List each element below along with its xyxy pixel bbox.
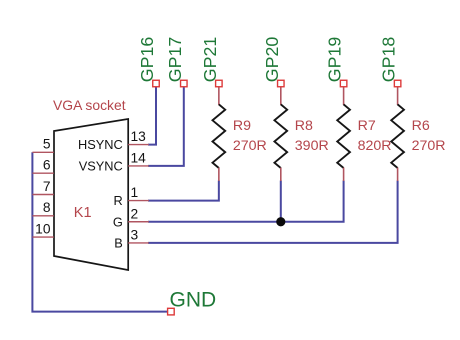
svg-text:270R: 270R (412, 138, 446, 154)
svg-text:7: 7 (43, 179, 51, 194)
wire B net (pin 3 across to R6 bottom) (148, 181, 398, 243)
svg-text:VGA socket: VGA socket (53, 97, 126, 113)
resistor R6 (391, 87, 445, 181)
svg-text:VSYNC: VSYNC (79, 159, 123, 174)
svg-text:GP17: GP17 (165, 37, 185, 82)
svg-text:390R: 390R (295, 138, 329, 154)
terminal square GP19 (340, 80, 347, 87)
svg-text:GP21: GP21 (200, 37, 220, 83)
terminal square GP18 (394, 80, 401, 87)
pin 13 stub (128, 144, 149, 146)
svg-text:GND: GND (170, 289, 217, 312)
VGA socket K1 body (54, 119, 128, 270)
wire HSYNC net (pin 13 to GP16) (148, 87, 156, 145)
pin 5 stub (32, 151, 53, 153)
svg-text:GP20: GP20 (262, 37, 282, 83)
resistor R7 (337, 87, 391, 181)
svg-text:8: 8 (43, 200, 51, 215)
pin 14 stub (128, 165, 149, 167)
terminal square GP20 (278, 80, 285, 87)
wire VSYNC net (pin 14 to GP17) (148, 87, 184, 166)
terminal square GP21 (216, 80, 223, 87)
svg-text:270R: 270R (233, 138, 267, 154)
pin 10 stub (32, 236, 53, 238)
svg-text:GP16: GP16 (137, 37, 157, 83)
svg-text:K1: K1 (74, 205, 92, 221)
pin 1 stub (128, 200, 149, 202)
wire GND net (left vertical bus + bottom run to GND terminal) (32, 152, 167, 311)
svg-text:R: R (114, 193, 123, 208)
svg-text:2: 2 (131, 206, 139, 221)
svg-text:B: B (114, 236, 123, 251)
svg-text:1: 1 (131, 185, 139, 200)
svg-text:820R: 820R (358, 138, 392, 154)
terminal square GP16 (153, 80, 160, 87)
junction dot on G net (276, 217, 285, 226)
svg-text:R6: R6 (412, 118, 430, 134)
pin 3 stub (128, 242, 149, 244)
svg-text:6: 6 (43, 158, 51, 173)
terminal square GND (168, 308, 175, 315)
terminal square GP17 (181, 80, 188, 87)
pin 6 stub (32, 172, 53, 174)
pin 2 stub (128, 221, 149, 223)
resistor R8 (274, 87, 328, 181)
svg-text:GP19: GP19 (325, 37, 345, 83)
svg-text:G: G (113, 214, 123, 229)
svg-text:HSYNC: HSYNC (78, 137, 123, 152)
svg-text:R7: R7 (358, 118, 376, 134)
svg-text:13: 13 (131, 129, 147, 144)
wire G net (pin 2 across to R7 bottom) (148, 181, 344, 222)
svg-text:3: 3 (131, 227, 139, 242)
svg-text:GP18: GP18 (379, 37, 399, 83)
svg-text:R8: R8 (295, 118, 313, 134)
pin 8 stub (32, 215, 53, 217)
wire R net (pin 1 to R9 bottom) (148, 181, 219, 201)
svg-text:14: 14 (131, 150, 147, 165)
svg-text:5: 5 (43, 137, 51, 152)
svg-text:10: 10 (35, 222, 51, 237)
svg-text:R9: R9 (233, 118, 251, 134)
wire R8 bottom drop to G net (280, 181, 282, 222)
pin 7 stub (32, 194, 53, 196)
resistor R9 (213, 87, 267, 181)
